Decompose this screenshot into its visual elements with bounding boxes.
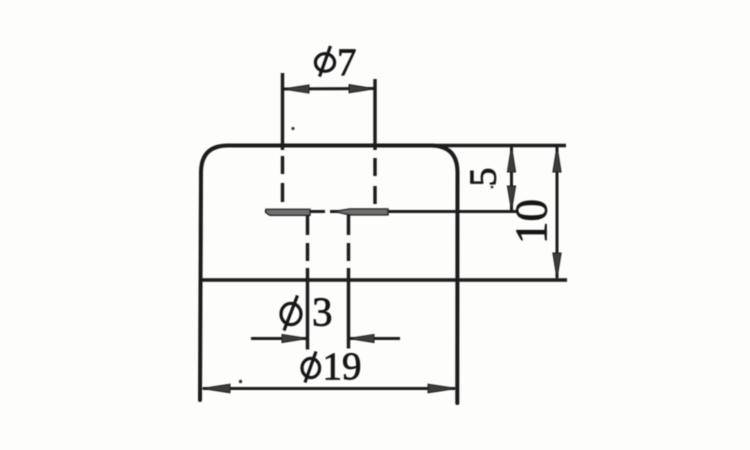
dimension line phi19 bbox=[203, 387, 455, 390]
arrow 5 top bbox=[507, 147, 515, 173]
hidden line hole phi3 right edge + extension to phi3 dim bbox=[347, 215, 350, 235]
arrow phi7 left bbox=[283, 85, 309, 93]
dimension line phi3 left segment bbox=[251, 337, 307, 340]
arrow 10 top bbox=[553, 147, 561, 173]
dimension line phi7 bbox=[283, 87, 374, 91]
part outline (cap cross-section, rounded top corners) bbox=[200, 146, 458, 404]
scan speck near top hole bbox=[291, 127, 294, 130]
svg-text:7: 7 bbox=[337, 41, 357, 84]
arrow phi7 right bbox=[349, 85, 375, 93]
dimension line 10 (vertical) bbox=[556, 147, 559, 278]
dimension line 5 (vertical) bbox=[510, 147, 513, 210]
svg-text:3: 3 bbox=[312, 289, 333, 335]
flange bottom line / 10-dim extension line bbox=[201, 278, 567, 281]
arrow phi3 left (points right at tip) bbox=[282, 334, 308, 342]
counterbore ledge line right (thin) + 5-dim extension bbox=[330, 210, 518, 213]
hidden line hole phi7 right edge bbox=[373, 79, 376, 150]
arrow phi3 right (points left at tip) bbox=[349, 334, 375, 342]
svg-text:19: 19 bbox=[323, 345, 362, 388]
svg-text:10: 10 bbox=[506, 199, 556, 244]
hidden line hole phi7 left edge (solid ext above, dashes below) bbox=[281, 73, 284, 150]
label phi3: phi symbol bbox=[281, 296, 301, 331]
counterbore ledge bar left (thick) bbox=[266, 209, 311, 215]
dimension line phi3 right segment bbox=[349, 337, 400, 340]
arrow phi19 right bbox=[428, 384, 456, 393]
hidden line hole phi3 left edge + extension to phi3 dim bbox=[306, 215, 309, 235]
scan speck near phi19 line bbox=[239, 380, 242, 383]
svg-text:5: 5 bbox=[463, 168, 505, 187]
scan speck right of part bbox=[491, 186, 494, 189]
arrow 5 bottom bbox=[507, 186, 515, 211]
label phi19: phi symbol bbox=[302, 352, 320, 383]
counterbore ledge bar right (thick, tapered left tip) bbox=[334, 209, 388, 215]
top-edge extension line to right bbox=[430, 144, 566, 147]
arrow 10 bottom bbox=[553, 253, 561, 279]
label phi7: phi symbol bbox=[315, 46, 334, 77]
counterbore ledge line left (thin) bbox=[265, 210, 325, 213]
arrow phi19 left bbox=[202, 384, 230, 393]
